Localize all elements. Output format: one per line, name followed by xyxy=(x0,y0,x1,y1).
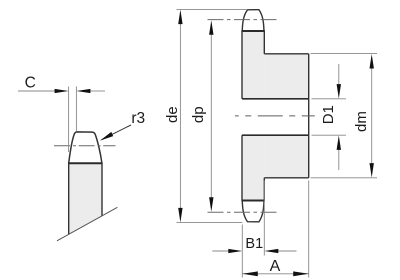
svg-text:B1: B1 xyxy=(245,236,263,252)
svg-text:de: de xyxy=(164,106,181,123)
svg-text:D1: D1 xyxy=(320,105,337,124)
svg-text:A: A xyxy=(270,258,281,275)
svg-text:dm: dm xyxy=(353,111,370,132)
svg-text:C: C xyxy=(25,74,36,91)
svg-text:dp: dp xyxy=(190,106,207,123)
svg-text:r3: r3 xyxy=(131,110,145,127)
